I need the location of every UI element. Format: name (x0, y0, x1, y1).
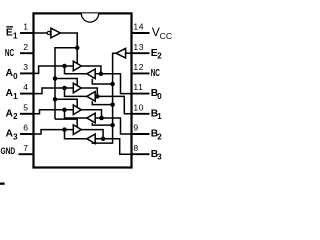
svg-text:2: 2 (13, 112, 18, 121)
pin 13 stub (132, 52, 150, 54)
wire fwd buffer 2 output (81, 88, 97, 96)
svg-text:9: 9 (133, 123, 138, 133)
wire A2 to rev buffer 3 output (65, 110, 87, 118)
pin 4 stub (20, 93, 34, 95)
node B1 junction (95, 94, 100, 99)
svg-text:6: 6 (23, 123, 28, 133)
wire A3 to rev buffer 4 output (65, 130, 87, 139)
inverter U1a (51, 28, 61, 38)
svg-text:1: 1 (23, 22, 28, 32)
wire fwd buffer 1 output (81, 66, 101, 74)
node A0 junction (62, 64, 67, 69)
buffer B-to-A channel 4 (87, 134, 95, 144)
svg-text:3: 3 (23, 62, 28, 72)
wire E2 tap to rev buffer 3 (92, 123, 112, 125)
wire E2 tap to rev buffer 2 (92, 101, 112, 104)
buffer B-to-A channel 1 (87, 69, 95, 79)
wire A0 to rev buffer 1 output (65, 66, 87, 74)
buffer A-to-B channel 3 (73, 105, 81, 115)
wire E2 buffer output to rail (92, 53, 116, 143)
wire A1 to rev buffer 2 output (65, 88, 87, 96)
wire E2 input (126, 52, 132, 54)
wire B2 net to pin (95, 118, 131, 134)
caption fragment bottom-left (0, 183, 5, 185)
svg-text:2: 2 (157, 52, 162, 61)
wire B0 net to pin (95, 74, 131, 94)
wire E1 inverter output to enable rail (60, 33, 77, 48)
svg-text:NC: NC (151, 68, 161, 79)
pin 1 orientation notch (81, 13, 98, 22)
pin 12 stub (132, 72, 150, 74)
wire A3 input from pin 6 (34, 130, 74, 134)
wire A2 input from pin 5 (34, 110, 74, 114)
buffer B-to-A channel 3 (87, 113, 95, 123)
buffer A-to-B channel 4 (73, 125, 81, 135)
junction E2 tap ch2 (110, 102, 115, 107)
svg-text:3: 3 (13, 132, 18, 141)
wire fwd buffer 4 output (81, 130, 103, 139)
svg-text:NC: NC (5, 48, 15, 59)
svg-text:5: 5 (23, 102, 28, 112)
svg-text:3: 3 (157, 153, 162, 162)
svg-text:GND: GND (1, 146, 16, 157)
wire E1 tap to fwd buffer 2 (55, 79, 77, 86)
node A2 junction (62, 108, 67, 113)
junction E2 tap ch1 (110, 82, 115, 87)
svg-text:10: 10 (133, 102, 144, 112)
buffer U1b (E2) (116, 48, 126, 58)
pin 11 stub (132, 93, 150, 95)
junction E2 tap ch3 (110, 123, 115, 128)
wire fwd buffer 3 output (81, 110, 101, 118)
buffer A-to-B channel 1 (73, 61, 81, 71)
buffer B-to-A channel 2 (87, 92, 95, 102)
pin 2 stub (20, 52, 34, 54)
svg-text:1: 1 (13, 92, 18, 101)
wire E2 tap to rev buffer 1 (92, 79, 112, 84)
node B3 junction (101, 137, 106, 142)
svg-text:14: 14 (133, 22, 144, 32)
pin 8 stub (132, 153, 150, 155)
wire E1 tap to fwd buffer 3 (55, 99, 77, 107)
svg-text:E: E (6, 28, 13, 39)
svg-text:CC: CC (160, 32, 173, 41)
pin 6 stub (20, 133, 34, 135)
node B2 junction (99, 116, 104, 121)
pin 5 stub (20, 113, 34, 115)
svg-text:1: 1 (13, 31, 18, 40)
svg-text:11: 11 (133, 82, 143, 92)
svg-text:0: 0 (13, 72, 18, 81)
svg-text:1: 1 (157, 112, 162, 121)
wire A0 input from pin 3 (34, 66, 74, 73)
svg-text:0: 0 (157, 92, 162, 101)
wire enable to fwd buffer 1 (76, 48, 78, 64)
buffer A-to-B channel 2 (73, 83, 81, 93)
node A1 junction (62, 86, 67, 91)
node B0 junction (99, 72, 104, 77)
pin 9 stub (132, 133, 150, 135)
wire B1 net to pin (95, 96, 131, 113)
pin 10 stub (132, 113, 150, 115)
wire A1 input from pin 4 (34, 88, 74, 94)
node A3 junction (62, 127, 67, 132)
svg-text:2: 2 (23, 42, 28, 52)
junction E1 tap ch2 (53, 76, 58, 81)
wire E1 rail (55, 48, 77, 119)
wire E1 input (34, 32, 48, 34)
svg-text:7: 7 (23, 143, 28, 153)
inverter U1a input bubble (47, 31, 50, 34)
IC package body U1 (34, 13, 132, 167)
wire E1 tap to fwd buffer 4 (55, 119, 77, 127)
svg-text:2: 2 (157, 132, 162, 141)
svg-text:4: 4 (23, 82, 28, 92)
svg-text:8: 8 (133, 143, 138, 153)
pin 3 stub (20, 72, 34, 74)
pin 1 stub (20, 32, 34, 34)
junction E1 tap ch3 (53, 97, 58, 102)
wire B3 net to pin (95, 139, 131, 154)
pin 7 stub (19, 153, 34, 155)
pin 14 stub (132, 32, 150, 34)
svg-text:13: 13 (133, 42, 144, 52)
svg-text:12: 12 (133, 62, 144, 72)
junction E1 rail (75, 46, 80, 51)
